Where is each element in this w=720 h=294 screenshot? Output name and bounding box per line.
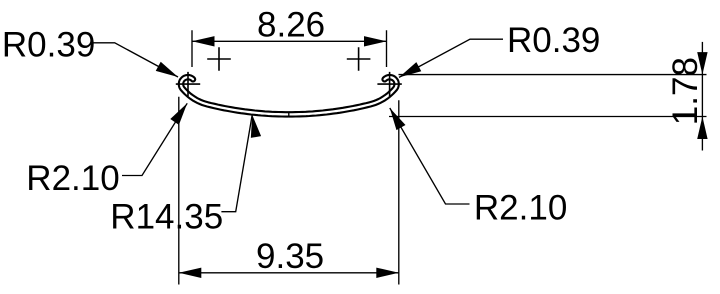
leader R2.10 right (390, 108, 470, 204)
leader R0.39 left (91, 43, 178, 77)
arrowhead 8.26 left (192, 36, 215, 46)
svg-text:R14.35: R14.35 (110, 198, 223, 237)
svg-text:9.35: 9.35 (256, 237, 324, 276)
dimension 8.26: extension lines (192, 30, 387, 67)
center mark cross R0.39 left (176, 72, 200, 96)
leader R14.35 (221, 115, 252, 212)
svg-text:R0.39: R0.39 (2, 25, 95, 64)
svg-text:1.78: 1.78 (666, 57, 705, 125)
dimension 9.35: extension lines (179, 97, 399, 285)
arrowhead R2.10 left leader (170, 100, 191, 124)
arrowhead 9.35 right (376, 268, 399, 278)
arrowhead R2.10 right leader (385, 105, 405, 130)
arrowhead 8.26 right (364, 36, 387, 46)
dimension 1.78: dimension line (701, 42, 703, 151)
dimension 8.26: dimension line (192, 40, 387, 42)
dimension 9.35: dimension line (179, 272, 399, 274)
arrowhead R14.35 leader (247, 114, 261, 138)
svg-text:R2.10: R2.10 (26, 159, 119, 198)
arrowhead 1.78 top (697, 52, 707, 75)
arrowhead 1.78 bottom (697, 117, 707, 140)
dimension 1.78: extension lines (389, 75, 707, 117)
svg-text:R2.10: R2.10 (474, 189, 567, 228)
center joint tick on bottom arc (288, 111, 290, 117)
center mark cross R2.10 left (207, 47, 231, 71)
arrowhead R0.39 right leader (397, 62, 422, 82)
svg-text:8.26: 8.26 (257, 6, 325, 45)
center mark cross R2.10 right (347, 47, 371, 71)
part outline left half (R14.35 arc, R2.10 bend, R0.39 curl) (179, 75, 289, 117)
leader R0.39 right (399, 39, 503, 77)
arrowhead 9.35 left (179, 268, 202, 278)
arrowhead R0.39 left leader (156, 62, 181, 82)
part outline right half (mirror) (289, 75, 399, 117)
leader R2.10 left (122, 103, 187, 175)
center mark cross R0.39 right (377, 72, 401, 96)
svg-text:R0.39: R0.39 (507, 21, 600, 60)
